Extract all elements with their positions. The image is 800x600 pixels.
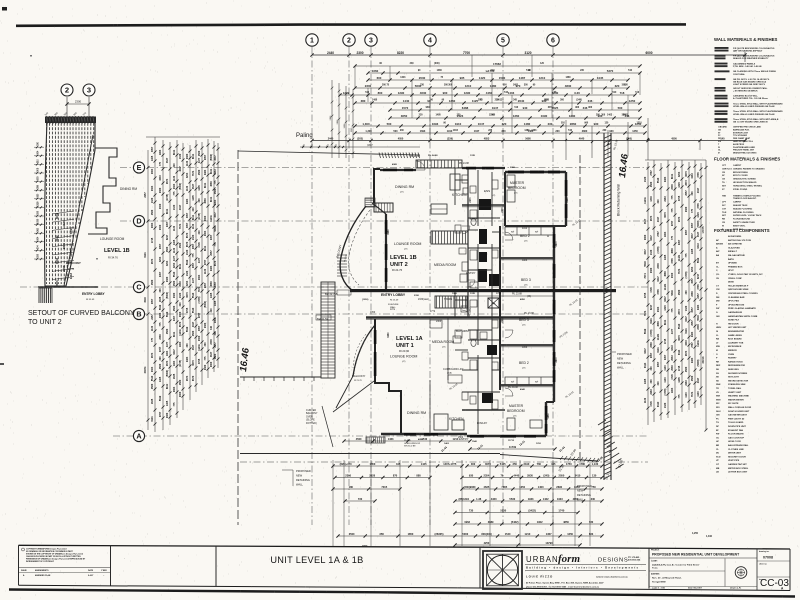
svg-text:AMENDMENTS: AMENDMENTS [35, 569, 49, 572]
svg-text:TITL SPONGER: TITL SPONGER [733, 135, 748, 137]
svg-text:2057: 2057 [691, 320, 694, 326]
svg-text:1380: 1380 [490, 84, 497, 88]
svg-text:OVEN: OVEN [728, 354, 735, 356]
svg-text:1405: 1405 [644, 378, 647, 384]
svg-text:2787: 2787 [650, 170, 653, 176]
svg-text:2063: 2063 [151, 222, 154, 228]
svg-text:ISSUE: ISSUE [21, 570, 27, 572]
svg-text:1: 1 [310, 38, 314, 45]
svg-text:1320: 1320 [685, 305, 688, 311]
svg-text:DESK: DESK [728, 282, 734, 284]
svg-text:ALRE PROD: ALRE PROD [733, 143, 745, 146]
svg-text:320: 320 [615, 84, 620, 88]
svg-text:NATURAL FLOORING: NATURAL FLOORING [733, 211, 754, 214]
svg-text:1405: 1405 [159, 376, 162, 382]
top cluster vertical connector stubs [354, 66, 356, 88]
svg-text:C'KED: C'KED [101, 570, 107, 572]
svg-text:STAIRS: STAIRS [444, 298, 453, 301]
svg-text:3203: 3203 [159, 175, 162, 181]
svg-text:(47): (47) [522, 368, 526, 370]
plan core left wall [467, 168, 469, 317]
svg-text:MASTER: MASTER [510, 181, 525, 185]
svg-text:230: 230 [555, 130, 560, 133]
svg-text:2300: 2300 [356, 51, 363, 55]
svg-text:940: 940 [523, 106, 528, 110]
svg-text:DATE: DATE [88, 569, 94, 572]
svg-text:AIP: AIP [716, 250, 720, 253]
svg-text:1407+1775: 1407+1775 [443, 462, 457, 466]
svg-text:2057: 2057 [685, 190, 688, 196]
svg-text:4850: 4850 [520, 298, 526, 301]
svg-text:RI 23.78: RI 23.78 [354, 380, 362, 382]
plan door arcs [416, 161, 425, 170]
svg-text:STAINLESS SINK: STAINLESS SINK [728, 383, 746, 386]
svg-text:METER BOX STEEL: METER BOX STEEL [728, 468, 749, 470]
plan upper curved balcony edge [340, 206, 366, 291]
svg-text:phone 612-9504 4303 - fax: phone 612-9504 4303 - fax 612-9501 5540 … [526, 585, 600, 588]
svg-text:FINE CABNT HEAT: FINE CABNT HEAT [733, 137, 751, 140]
svg-text:EPOXY COVER: EPOXY COVER [733, 175, 748, 177]
column gridline 3 [370, 47, 372, 525]
svg-text:4640: 4640 [579, 138, 585, 141]
svg-text:2300: 2300 [671, 272, 674, 278]
plan black service box 2 [479, 229, 487, 244]
svg-text:1693: 1693 [420, 130, 426, 133]
svg-text:(1735): (1735) [166, 194, 169, 201]
svg-text:340: 340 [210, 308, 213, 313]
svg-text:1963: 1963 [214, 169, 217, 175]
svg-text:ENTRY LOBBY: ENTRY LOBBY [82, 292, 106, 296]
column gridline 4 [429, 47, 431, 525]
plan lift shaft box [488, 298, 499, 308]
svg-text:NEW: NEW [617, 357, 624, 361]
svg-text:2063: 2063 [204, 230, 207, 236]
svg-text:2457: 2457 [159, 271, 162, 277]
svg-text:5540: 5540 [678, 323, 681, 329]
svg-text:2363: 2363 [173, 183, 176, 189]
svg-text:GAS COOKTOP: GAS COOKTOP [728, 436, 745, 439]
svg-text:FLOOR WASTE: FLOOR WASTE [728, 433, 744, 436]
svg-text:2300: 2300 [502, 317, 504, 323]
svg-text:(85)1294: (85)1294 [459, 497, 470, 501]
svg-text:4580: 4580 [151, 209, 154, 215]
urbanform divider line [525, 563, 646, 565]
svg-text:3203: 3203 [186, 172, 189, 178]
svg-text:6160: 6160 [567, 197, 569, 203]
plan middle stair hatch upper [431, 231, 468, 244]
svg-text:5435: 5435 [500, 462, 506, 466]
site boundary line extended [500, 455, 598, 462]
svg-text:7015: 7015 [381, 485, 387, 489]
svg-text:(1735): (1735) [685, 271, 688, 278]
svg-text:4830: 4830 [565, 84, 572, 88]
svg-text:CH: CH [716, 278, 720, 280]
svg-text:1780: 1780 [579, 462, 585, 466]
svg-text:2457: 2457 [678, 239, 681, 245]
svg-text:340: 340 [210, 325, 213, 330]
svg-text:2380: 2380 [186, 153, 189, 159]
svg-text:600: 600 [377, 76, 382, 80]
svg-text:2640: 2640 [518, 99, 525, 103]
svg-text:4580: 4580 [173, 305, 176, 311]
svg-text:CERAMIC PAVIERS TO GRADING: CERAMIC PAVIERS TO GRADING [733, 167, 765, 170]
plan black service box 5 [487, 345, 497, 355]
svg-text:(5000): (5000) [166, 370, 169, 377]
svg-text:300: 300 [198, 198, 201, 203]
svg-text:775: 775 [671, 208, 674, 213]
svg-text:(47): (47) [442, 347, 446, 349]
svg-text:4580: 4580 [685, 366, 688, 372]
svg-text:UNIT 1: UNIT 1 [396, 343, 414, 349]
svg-text:3203: 3203 [173, 262, 176, 268]
svg-text:4580: 4580 [166, 246, 169, 252]
svg-text:1835: 1835 [173, 373, 176, 379]
svg-text:PERF. GLAZING LAMINATE: PERF. GLAZING LAMINATE [728, 307, 756, 310]
svg-text:SEALED FOR WEATHER STABILITY: SEALED FOR WEATHER STABILITY [733, 57, 769, 60]
svg-text:+ EXTERIORS GB BRICK: + EXTERIORS GB BRICK [733, 90, 758, 92]
below-plan dimension rows [344, 440, 470, 442]
svg-text:2787: 2787 [657, 231, 660, 237]
svg-text:issue:: issue: [759, 579, 765, 581]
svg-text:2060: 2060 [644, 234, 647, 240]
svg-text:1210: 1210 [525, 532, 531, 536]
svg-text:CER/TLS 1: CER/TLS 1 [722, 168, 733, 170]
svg-text:2500: 2500 [349, 532, 355, 536]
svg-text:1330: 1330 [173, 204, 176, 210]
svg-text:(C)ASULA Pty Ltd, As 'trustee: (C)ASULA Pty Ltd, As 'trustee for Fahd S… [652, 564, 700, 567]
svg-text:1403: 1403 [400, 76, 406, 79]
svg-text:2380: 2380 [650, 342, 653, 348]
svg-text:AM CHRISTIE: AM CHRISTIE [728, 243, 742, 246]
svg-text:1320: 1320 [179, 292, 182, 298]
svg-text:1445: 1445 [421, 462, 427, 466]
svg-text:3765: 3765 [697, 284, 700, 290]
svg-text:2457: 2457 [173, 315, 176, 321]
svg-text:1745: 1745 [151, 237, 154, 243]
svg-text:w/r: w/r [511, 231, 514, 234]
plan lower kitchen divider [462, 409, 505, 411]
svg-text:7674: 7674 [644, 273, 647, 279]
svg-text:Bal 22.715: Bal 22.715 [325, 292, 338, 296]
top cluster right short verticals [565, 120, 567, 160]
svg-text:6247: 6247 [685, 316, 688, 322]
svg-text:1047: 1047 [478, 122, 485, 126]
plan black service box 6 [482, 393, 493, 403]
row grid bubble E [133, 162, 144, 173]
svg-text:1740: 1740 [559, 509, 565, 513]
svg-text:1910: 1910 [447, 130, 453, 133]
svg-text:KITCHEN: KITCHEN [449, 417, 464, 421]
svg-text:BEDROOM: BEDROOM [507, 409, 525, 413]
svg-text:2057: 2057 [650, 352, 653, 358]
svg-text:A. PLASTERED TOL. 120 GB 50mm: A. PLASTERED TOL. 120 GB 50mm [733, 97, 768, 100]
svg-text:DESIGNS: DESIGNS [598, 558, 628, 564]
svg-text:PC: PC [716, 418, 719, 420]
svg-text:RI 23.90: RI 23.90 [399, 349, 410, 353]
right ladder top connector [645, 159, 706, 161]
svg-text:1130: 1130 [204, 268, 207, 274]
svg-text:DINING RM: DINING RM [120, 187, 137, 191]
svg-text:1772: 1772 [496, 293, 502, 295]
svg-text:4580: 4580 [179, 379, 182, 385]
svg-text:LOUNGE ROOM: LOUNGE ROOM [390, 355, 417, 359]
svg-text:UPVC: UPVC [728, 270, 734, 272]
site fence line above plan [238, 151, 420, 155]
left ladder overall dims [147, 150, 149, 430]
svg-text:800: 800 [378, 91, 383, 95]
svg-text:130: 130 [592, 474, 597, 478]
svg-text:4580: 4580 [198, 169, 201, 175]
column grid bubble 4 [424, 34, 436, 46]
block retaining wall strip [603, 133, 605, 480]
svg-text:24016: 24016 [702, 356, 705, 364]
svg-text:HANDSANTAN SMITH COMB: HANDSANTAN SMITH COMB [728, 315, 758, 318]
plan black service box 3 [478, 269, 487, 282]
svg-text:1,300: 1,300 [362, 122, 370, 126]
svg-text:8670: 8670 [186, 241, 189, 247]
svg-text:230: 230 [548, 122, 553, 126]
svg-text:718: 718 [620, 91, 625, 95]
svg-text:8191: 8191 [657, 347, 660, 353]
svg-text:H: H [547, 234, 549, 238]
svg-text:2873: 2873 [151, 352, 154, 358]
below-plan vertical ticks [332, 460, 334, 546]
plan kitchen top wall windows [466, 167, 476, 170]
svg-text:500: 500 [387, 122, 392, 126]
svg-text:1367: 1367 [546, 532, 552, 536]
svg-text:GC: GC [716, 437, 720, 439]
svg-text:3203: 3203 [691, 266, 694, 272]
svg-text:(1735): (1735) [198, 296, 201, 303]
svg-text:2380: 2380 [159, 334, 162, 340]
svg-text:TRADE FLOOR BALUST.: TRADE FLOOR BALUST. [733, 197, 757, 200]
project panel divider [648, 548, 650, 589]
svg-text:340: 340 [179, 302, 182, 307]
plan top stair outline [416, 160, 462, 168]
svg-text:CERTIFIED FIRE CHECK LABD: CERTIFIED FIRE CHECK LABD [733, 126, 761, 129]
svg-text:4040: 4040 [520, 388, 526, 391]
svg-text:2057: 2057 [159, 243, 162, 249]
svg-text:1902: 1902 [537, 520, 543, 524]
plan lower bed2/master divider [500, 384, 554, 386]
svg-text:1047: 1047 [474, 130, 480, 133]
svg-text:2030: 2030 [419, 76, 426, 80]
svg-text:140: 140 [720, 138, 725, 141]
svg-text:1090: 1090 [541, 114, 548, 118]
svg-text:drawn L.R.: drawn L.R. [730, 588, 742, 590]
svg-text:4580: 4580 [159, 363, 162, 369]
svg-text:1320: 1320 [664, 402, 667, 408]
svg-text:2873: 2873 [166, 178, 169, 184]
svg-text:FIXTURES / COMPONENTS: FIXTURES / COMPONENTS [714, 228, 770, 233]
svg-text:775: 775 [192, 253, 195, 258]
right ladder overall dimension [705, 160, 707, 430]
svg-text:3889: 3889 [488, 520, 494, 524]
row grid bubble C [133, 281, 144, 292]
svg-text:(47): (47) [402, 361, 406, 363]
svg-text:5540: 5540 [697, 315, 700, 321]
svg-text:1320: 1320 [192, 234, 195, 240]
row gridline A [113, 435, 648, 437]
detail dimension 2300 [67, 103, 89, 105]
svg-text:8191: 8191 [204, 182, 207, 188]
scale row [649, 586, 757, 588]
svg-text:6343: 6343 [671, 345, 674, 351]
svg-text:2063: 2063 [198, 274, 201, 280]
svg-text:DOWN PIPE UNIT: DOWN PIPE UNIT [728, 426, 747, 428]
svg-text:2063: 2063 [214, 317, 217, 323]
svg-text:1405: 1405 [678, 377, 681, 383]
svg-text:3057: 3057 [691, 307, 694, 313]
svg-text:WALL: WALL [296, 483, 304, 487]
svg-text:drawing no:: drawing no: [759, 551, 770, 553]
svg-text:LOUNGE ROOM: LOUNGE ROOM [394, 242, 421, 246]
svg-text:1130: 1130 [192, 223, 195, 229]
svg-text:2380: 2380 [166, 276, 169, 282]
svg-text:6247: 6247 [650, 304, 653, 310]
svg-text:2300: 2300 [502, 207, 504, 213]
svg-text:775: 775 [159, 322, 162, 327]
svg-text:2328: 2328 [369, 474, 375, 478]
svg-text:3120: 3120 [524, 51, 531, 55]
svg-text:2060: 2060 [204, 215, 207, 221]
svg-text:340: 340 [173, 163, 176, 168]
svg-text:6247: 6247 [657, 276, 660, 282]
svg-text:5540: 5540 [192, 292, 195, 298]
svg-text:PIER CAVITY 40: PIER CAVITY 40 [728, 417, 745, 420]
svg-text:2300: 2300 [198, 335, 201, 341]
svg-text:CLEANING BAR: CLEANING BAR [728, 296, 745, 299]
svg-text:PIL 24.88: PIL 24.88 [459, 163, 469, 165]
svg-text:PIL 24.60: PIL 24.60 [410, 156, 420, 158]
svg-text:1405: 1405 [664, 254, 667, 260]
svg-text:1693: 1693 [432, 122, 439, 126]
svg-text:5: 5 [501, 38, 505, 45]
svg-text:BR: BR [716, 445, 720, 447]
column grid bubble 1 [306, 34, 318, 46]
svg-text:2860: 2860 [570, 122, 577, 126]
plan wardrobe row lower [505, 377, 554, 385]
svg-text:VU: VU [716, 392, 719, 394]
svg-text:8191: 8191 [671, 173, 674, 179]
svg-text:TILE: TILE [722, 212, 727, 214]
svg-text:70mm STEEL STUD WALL WITH PLAS: 70mm STEEL STUD WALL WITH PLASTERBOARD [733, 110, 783, 113]
svg-text:2457: 2457 [151, 314, 154, 320]
svg-text:4850: 4850 [547, 413, 550, 419]
lower top-dim row with small numbers [300, 146, 420, 148]
svg-text:8191: 8191 [173, 331, 176, 337]
svg-text:7865: 7865 [501, 485, 507, 489]
svg-text:1405: 1405 [214, 300, 217, 306]
svg-text:3.20: 3.20 [574, 91, 580, 95]
svg-text:1947: 1947 [492, 106, 499, 110]
svg-text:6488: 6488 [462, 106, 469, 110]
bottom border trim line [9, 590, 795, 597]
svg-text:2483: 2483 [697, 304, 700, 310]
svg-text:8191: 8191 [179, 263, 182, 269]
svg-text:1320: 1320 [678, 182, 681, 188]
top border trim line [16, 24, 686, 25]
svg-text:2787: 2787 [671, 220, 674, 226]
svg-text:3025: 3025 [552, 106, 559, 110]
svg-text:2060: 2060 [179, 311, 182, 317]
svg-text:VYNDO, GOLD PAR 15 UNITS, D/C: VYNDO, GOLD PAR 15 UNITS, D/C [728, 273, 763, 276]
svg-text:8670: 8670 [192, 360, 195, 366]
column grid bubble 2 [343, 34, 355, 46]
svg-text:1318: 1318 [38, 201, 40, 207]
svg-text:DINING RM: DINING RM [407, 411, 426, 415]
site line below building [240, 453, 500, 455]
svg-text:SCD: SCD [716, 456, 721, 458]
svg-text:GB CLADDING WITH 75mm SINGLE F: GB CLADDING WITH 75mm SINGLE FINISH [733, 70, 776, 73]
svg-text:07008: 07008 [763, 556, 773, 560]
drawing number panel [756, 549, 758, 590]
svg-text:SEALER TILES: SEALER TILES [733, 204, 748, 207]
svg-text:1403: 1403 [513, 84, 519, 87]
svg-text:8670: 8670 [179, 321, 182, 327]
svg-text:345: 345 [551, 462, 556, 466]
svg-text:3410: 3410 [575, 474, 581, 478]
svg-text:1480: 1480 [436, 114, 442, 117]
plan ground line left of stair [240, 376, 321, 378]
svg-text:WC SUITE: WC SUITE [728, 403, 739, 405]
svg-text:2457: 2457 [166, 221, 169, 227]
plan entry lobby lower wall [366, 316, 554, 319]
plan window markings left walls [385, 220, 388, 234]
svg-text:730: 730 [469, 509, 474, 513]
svg-text:2873: 2873 [678, 309, 681, 315]
svg-text:HORIZONTAL STEEL TROWEL: HORIZONTAL STEEL TROWEL [733, 184, 763, 187]
svg-text:Paling: Paling [296, 133, 313, 139]
svg-text:350: 350 [513, 462, 518, 466]
svg-text:1360: 1360 [513, 114, 520, 118]
svg-text:1487: 1487 [519, 76, 526, 80]
svg-text:4047: 4047 [179, 204, 182, 210]
column grid bubble 3 [365, 34, 377, 46]
svg-text:1320: 1320 [151, 197, 154, 203]
svg-text:3: 3 [87, 86, 91, 95]
svg-text:8670: 8670 [214, 260, 217, 266]
svg-text:2787: 2787 [159, 346, 162, 352]
plan master/bed2 divider [505, 225, 554, 227]
svg-text:TULLE GUARD: TULLE GUARD [728, 421, 744, 424]
svg-text:TO UNIT 2: TO UNIT 2 [28, 319, 62, 326]
svg-text:(620)+370: (620)+370 [340, 462, 352, 466]
svg-text:1745: 1745 [470, 292, 476, 295]
svg-text:775: 775 [671, 235, 674, 240]
svg-text:1480: 1480 [524, 122, 531, 126]
svg-text:9.4.07: 9.4.07 [88, 574, 93, 577]
left margin registration marks [2, 7, 7, 11]
svg-text:CLOTHES LINE: CLOTHES LINE [728, 449, 744, 451]
svg-text:KB: KB [716, 339, 720, 341]
svg-text:MEDIUM FINE, DUO WING: MEDIUM FINE, DUO WING [733, 153, 757, 155]
svg-text:930: 930 [594, 122, 599, 126]
svg-text:GARDEN TAP SET: GARDEN TAP SET [728, 463, 747, 466]
plan lower master right wall [545, 402, 547, 436]
svg-text:RI 23.49: RI 23.49 [390, 300, 399, 302]
svg-text:TBE: TBE [722, 196, 727, 198]
svg-text:4040: 4040 [522, 228, 528, 230]
svg-text:17075: 17075 [702, 226, 705, 234]
svg-text:1963: 1963 [214, 199, 217, 205]
svg-text:1480: 1480 [437, 69, 443, 72]
svg-text:4580: 4580 [691, 375, 694, 381]
svg-text:900: 900 [443, 91, 448, 95]
plan master bedroom top wall [505, 171, 566, 173]
svg-text:1320: 1320 [644, 176, 647, 182]
svg-text:WALL OVEN AS DOOR: WALL OVEN AS DOOR [728, 406, 752, 409]
